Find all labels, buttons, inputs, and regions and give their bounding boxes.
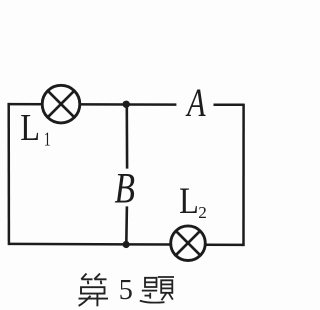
lamp L2 bbox=[171, 226, 206, 261]
caption char DI (第) bbox=[79, 274, 109, 307]
svg-text:2: 2 bbox=[198, 203, 207, 222]
wire bottom horizontal (left corner to lamp L2) bbox=[9, 243, 171, 246]
wire top-right stub (A to top-right corner) bbox=[214, 103, 244, 106]
wire left vertical side bbox=[7, 103, 10, 245]
node junction dot bottom bbox=[123, 241, 130, 248]
caption char TI (题) bbox=[140, 277, 174, 303]
wire middle vertical lower bbox=[125, 206, 128, 244]
svg-text:B: B bbox=[115, 164, 135, 212]
svg-text:1: 1 bbox=[44, 128, 51, 150]
wire bottom-right segment (corner to lamp L2) bbox=[205, 243, 243, 246]
lamp L1 bbox=[42, 85, 80, 123]
svg-text:5: 5 bbox=[119, 275, 133, 306]
svg-text:L: L bbox=[179, 181, 199, 221]
wire right vertical side bbox=[242, 104, 245, 247]
node junction dot top bbox=[123, 101, 130, 108]
wire top horizontal (left corner to gap at A) bbox=[9, 103, 177, 106]
svg-text:A: A bbox=[185, 80, 205, 125]
wire middle vertical upper (node B branch) bbox=[126, 105, 129, 169]
svg-text:L: L bbox=[20, 105, 40, 148]
